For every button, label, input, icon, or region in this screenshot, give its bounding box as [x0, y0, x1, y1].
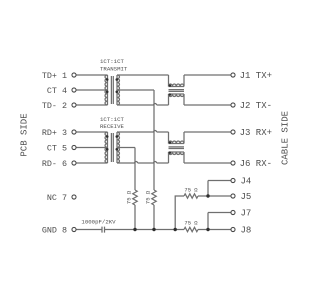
svg-text:CT 4: CT 4	[47, 86, 67, 96]
svg-text:TRANSMIT: TRANSMIT	[100, 65, 128, 72]
svg-text:75 Ω: 75 Ω	[184, 186, 198, 193]
svg-text:75 Ω: 75 Ω	[184, 219, 198, 226]
svg-text:TD+ 1: TD+ 1	[42, 71, 67, 81]
svg-text:J2 TX-: J2 TX-	[240, 101, 272, 111]
svg-text:PCB SIDE: PCB SIDE	[20, 113, 30, 156]
svg-text:TD- 2: TD- 2	[42, 101, 67, 111]
svg-text:J1 TX+: J1 TX+	[240, 71, 272, 81]
svg-text:J5: J5	[241, 192, 252, 202]
svg-text:GND 8: GND 8	[42, 225, 67, 235]
svg-text:J6 RX-: J6 RX-	[240, 159, 272, 169]
svg-text:RD+ 3: RD+ 3	[42, 128, 67, 138]
svg-text:1CT:1CT: 1CT:1CT	[100, 58, 124, 65]
svg-text:CT 5: CT 5	[47, 143, 67, 153]
svg-text:CABLE SIDE: CABLE SIDE	[281, 111, 291, 165]
svg-text:RECEIVE: RECEIVE	[100, 123, 124, 130]
svg-text:75 Ω: 75 Ω	[144, 190, 151, 204]
svg-text:75 Ω: 75 Ω	[125, 190, 132, 204]
svg-text:J4: J4	[241, 177, 252, 187]
svg-text:1000pF/2KV: 1000pF/2KV	[81, 218, 116, 225]
svg-text:J3 RX+: J3 RX+	[240, 128, 272, 138]
svg-text:NC 7: NC 7	[47, 193, 67, 203]
svg-text:J8: J8	[241, 226, 252, 236]
svg-text:J7: J7	[241, 209, 252, 219]
svg-text:RD- 6: RD- 6	[42, 159, 67, 169]
